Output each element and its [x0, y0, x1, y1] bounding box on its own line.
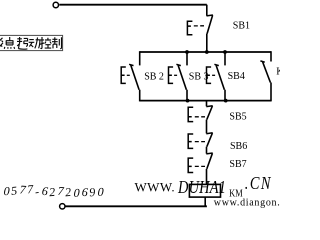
label SB2: [144, 72, 164, 83]
wire coil to bottom: [204, 197, 206, 206]
hanzi 起: [17, 37, 28, 49]
svg-text:KM: KM: [229, 189, 243, 200]
pushbutton SB4 (NO): [207, 64, 225, 89]
watermark WWW.: [135, 179, 175, 194]
watermark DUHA1.CN: [177, 179, 226, 198]
wire left rail lower: [139, 90, 141, 102]
svg-text:SB4: SB4: [228, 71, 245, 82]
svg-text:www.diangon.: www.diangon.: [214, 198, 280, 209]
wire SB4 branch upper: [224, 52, 226, 65]
hanzi 点: [4, 37, 14, 49]
svg-text:WWW.: WWW.: [135, 179, 175, 194]
node bottom bus right: [224, 99, 228, 103]
svg-text:SB5: SB5: [229, 112, 246, 123]
label SB3: [189, 72, 209, 83]
wire bottom bus: [140, 100, 271, 102]
wire top bus: [140, 51, 271, 53]
terminal top: [53, 2, 58, 7]
wire SB3 branch upper: [186, 52, 188, 65]
node top bus left: [185, 50, 189, 54]
wire left rail upper: [139, 51, 141, 65]
node bottom bus left: [186, 99, 190, 103]
svg-text:DUHA1: DUHA1: [177, 179, 226, 198]
wire KM aux branch lower: [270, 83, 272, 102]
label SB7: [229, 159, 246, 170]
label SB6: [230, 141, 247, 152]
hanzi 控: [40, 37, 52, 48]
svg-text:SB 2: SB 2: [144, 72, 164, 83]
wire bottom horizontal: [65, 205, 207, 207]
node top bus mid: [205, 50, 209, 54]
svg-text:.CN: .CN: [245, 175, 272, 194]
pushbutton SB5 (NO): [188, 106, 213, 122]
wire SB4 branch lower: [224, 90, 226, 101]
watermark phone 0577-62720690: [3, 182, 105, 200]
watermark www.diangon.: [214, 198, 281, 209]
hanzi 制: [52, 37, 62, 48]
caption box 多点起动控制: [0, 35, 63, 50]
pushbutton SB6 (NO): [188, 133, 213, 149]
hanzi 多 (clipped): [0, 38, 3, 49]
label SB1: [233, 21, 250, 32]
label SB4: [228, 71, 245, 82]
wire KM aux branch upper: [270, 51, 272, 61]
hanzi 动: [29, 37, 40, 48]
svg-text:KM: KM: [276, 67, 280, 78]
wire SB3 branch lower: [186, 90, 188, 101]
label KM: [229, 189, 243, 200]
node top bus right: [223, 50, 227, 54]
pushbutton SB7 (NO): [188, 153, 213, 173]
pushbutton SB2 (NO): [121, 64, 139, 89]
wire SB5 to SB6: [206, 120, 208, 134]
label SB5: [229, 112, 246, 123]
pushbutton SB1 (NO): [187, 15, 213, 35]
wire SB6 to SB7: [206, 147, 208, 154]
svg-text:SB1: SB1: [233, 21, 250, 32]
svg-text:SB7: SB7: [229, 159, 246, 170]
wire SB1 drop: [206, 5, 208, 16]
svg-text:SB 3: SB 3: [189, 72, 209, 83]
wire chain to SB5: [206, 101, 208, 107]
svg-text:SB6: SB6: [230, 141, 247, 152]
pushbutton SB3 (NO): [169, 64, 187, 89]
wire SB1 to top bus: [206, 34, 208, 52]
wire top horizontal: [59, 4, 207, 6]
contact KM auxiliary (NO, self-hold): [260, 61, 270, 83]
coil KM: [189, 184, 220, 197]
label KM aux: [276, 67, 292, 78]
wire SB7 to coil: [206, 169, 208, 185]
terminal bottom: [60, 204, 65, 209]
